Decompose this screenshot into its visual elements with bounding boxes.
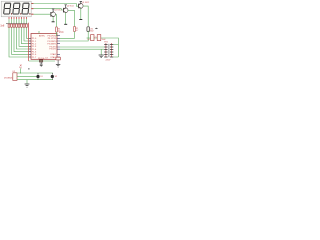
svg-text:C5: C5 bbox=[95, 37, 97, 39]
svg-text:4.7: 4.7 bbox=[58, 31, 61, 33]
wire R2 to MCU bbox=[60, 32, 75, 39]
svg-text:DS18B20: DS18B20 bbox=[4, 78, 14, 80]
display segment pins (red pin ends) bbox=[9, 17, 27, 19]
svg-text:P1.6: P1.6 bbox=[32, 54, 37, 56]
red pin stubs at display right bbox=[31, 4, 33, 15]
button S2 bbox=[51, 73, 58, 80]
wire Q2 collector to R2 bbox=[68, 10, 75, 26]
digit 2 bbox=[13, 3, 20, 14]
7-segment display DS1 body bbox=[1, 1, 31, 17]
svg-text:BUZ: BUZ bbox=[90, 30, 93, 32]
wire Q1 collector to buzzer bbox=[83, 6, 88, 26]
Q2 emitter power flag bbox=[65, 13, 67, 25]
digit 3 decimal point bbox=[29, 13, 30, 14]
MCU left pin names bbox=[32, 38, 37, 59]
svg-text:Q2 9012: Q2 9012 bbox=[67, 6, 74, 8]
inline component R9 bbox=[38, 58, 44, 62]
wire buzzer to MCU bbox=[60, 31, 88, 41]
svg-text:P1.7: P1.7 bbox=[32, 57, 37, 59]
red net wire at bus right bbox=[28, 23, 30, 61]
button S1 bbox=[36, 73, 43, 80]
svg-text:P1.0: P1.0 bbox=[32, 38, 37, 40]
buzzer LS1 bbox=[87, 27, 98, 33]
svg-text:DQ: DQ bbox=[19, 67, 22, 69]
MCU left pin stubs bbox=[29, 38, 31, 57]
svg-text:P1.3: P1.3 bbox=[32, 46, 37, 48]
digit 1 decimal point bbox=[11, 13, 12, 14]
MCU top stub bbox=[38, 31, 40, 34]
wire Q3 collector to R3 bbox=[55, 15, 56, 28]
wire cap row to transformer secondary bbox=[87, 38, 119, 57]
capacitor C3 with ground bbox=[45, 57, 60, 67]
capacitor to ground below R9 bbox=[40, 62, 43, 67]
ground bottom left bbox=[25, 80, 30, 88]
svg-text:P1.1: P1.1 bbox=[32, 41, 37, 43]
MCU right pin stubs bbox=[57, 36, 60, 57]
svg-text:P3.5/T1: P3.5/T1 bbox=[49, 49, 57, 51]
pull-up wire to MCU bbox=[19, 65, 22, 74]
svg-text:P3.2/INT0: P3.2/INT0 bbox=[47, 41, 57, 43]
svg-text:P3.3/INT1: P3.3/INT1 bbox=[47, 44, 57, 46]
Q3 emitter power flag bbox=[52, 17, 54, 22]
svg-text:Q1 9012: Q1 9012 bbox=[82, 2, 89, 4]
Q1 emitter power flag bbox=[80, 8, 82, 19]
digit common wires from display bbox=[31, 4, 78, 15]
segment bus to MCU left pins bbox=[9, 28, 31, 58]
svg-text:C4: C4 bbox=[87, 39, 89, 41]
wire below MCU bbox=[29, 60, 55, 62]
resistor pack RP1 bbox=[0, 24, 27, 28]
temperature sensor DS18B20 bbox=[4, 71, 17, 80]
small tick bottom left of MCU bbox=[28, 68, 30, 69]
capacitor C4 bbox=[87, 35, 97, 41]
digit 3 bbox=[22, 3, 29, 14]
capacitor C5 bbox=[97, 35, 106, 41]
svg-text:XTAL1: XTAL1 bbox=[50, 53, 57, 56]
digit 2 decimal point bbox=[20, 13, 21, 14]
svg-text:3x8: 3x8 bbox=[0, 25, 5, 28]
svg-text:AT89C: AT89C bbox=[39, 34, 46, 37]
ground below wires bbox=[99, 49, 104, 57]
transistor Q1 bbox=[79, 2, 89, 9]
svg-text:P3.1/TXD: P3.1/TXD bbox=[48, 38, 57, 40]
resistor R2 bbox=[74, 27, 79, 33]
transistor Q3 bbox=[51, 9, 61, 17]
svg-text:220V: 220V bbox=[106, 60, 111, 62]
MCU right pin names bbox=[47, 36, 57, 59]
wires MCU right to transformer bbox=[60, 47, 104, 49]
resistor R3 bbox=[56, 27, 61, 33]
wire R3 to MCU bbox=[56, 32, 59, 36]
transformer TR1 bbox=[104, 41, 113, 61]
transistor Q2 bbox=[63, 5, 73, 13]
MCU U1 body bbox=[31, 34, 57, 60]
svg-text:Q3 9012: Q3 9012 bbox=[54, 10, 61, 12]
digit 1 bbox=[4, 3, 11, 14]
svg-text:4.7: 4.7 bbox=[76, 30, 79, 32]
sensor wires bbox=[17, 73, 53, 80]
svg-text:P1.4: P1.4 bbox=[32, 49, 37, 51]
wires display pins to resistor pack bbox=[9, 19, 27, 24]
